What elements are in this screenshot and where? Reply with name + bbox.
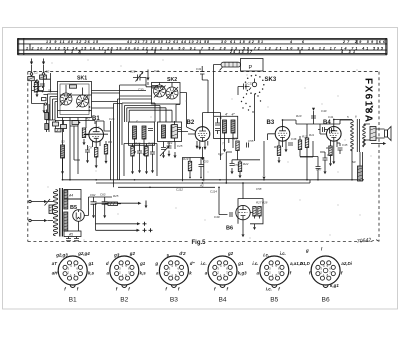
resistor R3 bbox=[95, 148, 98, 158]
trimmer C23 bbox=[176, 128, 181, 130]
wire detector mid bbox=[232, 116, 260, 163]
svg-text:f: f bbox=[227, 287, 229, 292]
svg-text:C41: C41 bbox=[328, 115, 334, 119]
svg-text:g1: g1 bbox=[139, 261, 146, 266]
wire R11 R12 bbox=[300, 136, 318, 180]
T1 secondary coil bbox=[231, 120, 235, 133]
svg-text:C47: C47 bbox=[316, 168, 322, 172]
wire left column bbox=[62, 158, 64, 168]
svg-text:SK3: SK3 bbox=[265, 77, 277, 83]
socket B2 pin labels bbox=[106, 251, 146, 291]
table row 1 numbers bbox=[26, 40, 386, 54]
svg-text:4: 4 bbox=[70, 264, 72, 268]
SK2 wafer 2 bbox=[166, 87, 178, 99]
ground S5 bbox=[143, 150, 146, 156]
junction AF box bbox=[189, 177, 191, 179]
svg-text:7: 7 bbox=[222, 142, 224, 146]
svg-text:C21: C21 bbox=[154, 69, 160, 73]
capacitor C49 bbox=[230, 212, 232, 217]
resistor R6 bbox=[172, 125, 178, 139]
junction SK1 outputs bbox=[69, 179, 71, 181]
resistor R4 bbox=[104, 145, 107, 155]
transformer core bbox=[60, 188, 63, 237]
wire T2 bbox=[352, 120, 370, 180]
svg-text:B5: B5 bbox=[270, 297, 278, 304]
wire R14 down bbox=[331, 143, 341, 160]
ground aerial bbox=[43, 107, 46, 113]
ground T1 bbox=[223, 146, 226, 152]
wire AVC rail bbox=[96, 180, 310, 183]
ground antenna bbox=[36, 91, 39, 97]
svg-text:B4: B4 bbox=[218, 297, 226, 304]
capacitor C50 bbox=[137, 151, 142, 153]
svg-text:R17: R17 bbox=[148, 142, 154, 146]
SK1 contact dots bbox=[89, 106, 91, 108]
ground R4 bbox=[105, 158, 108, 164]
svg-text:1: 1 bbox=[70, 273, 72, 277]
rectifier tube B5 bbox=[73, 210, 85, 222]
socket diagram B4 bbox=[208, 256, 237, 288]
capacitor C7 bbox=[72, 121, 80, 125]
svg-text:C31: C31 bbox=[196, 67, 202, 71]
wire HT rail bbox=[63, 179, 365, 181]
vertical risers right of B1 bbox=[111, 104, 123, 188]
wire SK1 bottom cluster bbox=[44, 104, 64, 132]
tube B3 bbox=[275, 127, 290, 142]
ground R22 bbox=[239, 172, 242, 178]
ground C50 bbox=[138, 167, 141, 173]
ground C51 bbox=[151, 167, 154, 173]
svg-text:R16: R16 bbox=[135, 142, 141, 146]
svg-text:R25: R25 bbox=[113, 194, 119, 198]
power transformer primary bbox=[53, 190, 57, 236]
arrow B2 pin3 bbox=[204, 147, 207, 150]
HT secondary box A4 bbox=[64, 190, 81, 200]
ground padder 2 bbox=[168, 151, 171, 157]
wire T1 plate feed bbox=[218, 113, 221, 160]
svg-text:a2,Di: a2,Di bbox=[341, 261, 352, 266]
wire to band switch bbox=[32, 95, 48, 108]
svg-text:5: 5 bbox=[347, 115, 349, 119]
wire heater rail bbox=[118, 186, 215, 188]
schematic dashed enclosure border bbox=[28, 72, 379, 242]
svg-text:70642: 70642 bbox=[357, 237, 372, 245]
svg-text:SK2: SK2 bbox=[167, 77, 177, 83]
coil box 1 bbox=[129, 122, 155, 145]
svg-text:g2: g2 bbox=[129, 251, 136, 256]
svg-text:f: f bbox=[77, 287, 79, 292]
wire coil box outputs bbox=[135, 139, 176, 150]
svg-text:R11: R11 bbox=[309, 133, 314, 137]
resistor R9 bbox=[277, 146, 280, 156]
capacitor C61 bbox=[74, 237, 79, 241]
wire harness box outer bbox=[118, 96, 181, 180]
svg-text:g: g bbox=[154, 261, 158, 266]
coil S2b bbox=[45, 124, 49, 130]
svg-text:i.c.: i.c. bbox=[280, 251, 286, 256]
svg-text:C36: C36 bbox=[291, 137, 297, 141]
wire B6 right bbox=[243, 206, 260, 231]
socket B1 pin labels bbox=[52, 251, 95, 291]
switch SK3 wafer bbox=[245, 75, 265, 95]
svg-text:C44: C44 bbox=[327, 153, 333, 157]
SK2 blade 2 bbox=[167, 87, 179, 99]
ground B3 cathode bbox=[285, 146, 288, 152]
transformer secondary S1 bbox=[64, 190, 68, 209]
svg-text:P: P bbox=[249, 65, 253, 71]
svg-text:d′2: d′2 bbox=[179, 251, 186, 256]
mains terminal L bbox=[29, 200, 53, 203]
IF transformer T1 box bbox=[214, 116, 238, 138]
ground C62 bbox=[92, 212, 95, 218]
svg-text:41 21 73 18 35 12 61 44 10 21: 41 21 73 18 35 12 61 44 10 21 58 bbox=[126, 40, 209, 44]
svg-text:4 1 7: 4 1 7 bbox=[63, 50, 81, 54]
wire antenna network bbox=[32, 75, 44, 103]
wire speaker bbox=[376, 129, 385, 138]
resistor R14 bbox=[329, 146, 332, 156]
svg-text:f: f bbox=[214, 287, 216, 292]
resistor R28 bbox=[258, 207, 261, 217]
arrow volume bbox=[263, 177, 266, 180]
wire volume feed bbox=[263, 141, 265, 176]
ground R27 bbox=[253, 224, 256, 230]
svg-text:C33: C33 bbox=[248, 82, 254, 86]
svg-text:C30: C30 bbox=[138, 88, 144, 92]
capacitor C30 bbox=[146, 86, 163, 89]
svg-text:k,g1: k,g1 bbox=[330, 283, 339, 288]
svg-text:g2: g2 bbox=[227, 251, 234, 256]
capacitor C53 bbox=[199, 165, 204, 167]
svg-text:g3: g3 bbox=[113, 253, 120, 258]
svg-text:f: f bbox=[64, 287, 66, 292]
ground R16 bbox=[131, 168, 134, 174]
ground padder 3 bbox=[174, 152, 177, 158]
capacitor C24 padder bbox=[161, 148, 166, 150]
capacitor C6 bbox=[53, 122, 59, 126]
svg-text:B4: B4 bbox=[323, 120, 331, 126]
input coupling cluster bbox=[33, 73, 58, 92]
wire SK1 outputs bbox=[63, 118, 87, 180]
wire SK1 internal bbox=[60, 85, 92, 95]
svg-text:f: f bbox=[278, 287, 280, 292]
coil S4 bbox=[133, 126, 137, 139]
svg-text:1: 1 bbox=[220, 273, 222, 277]
resistor R27 bbox=[253, 207, 256, 217]
T2 core bbox=[357, 119, 359, 152]
pickup P cartridge bbox=[220, 62, 241, 70]
svg-text:B3: B3 bbox=[267, 120, 275, 126]
tube B6 bbox=[236, 205, 250, 219]
svg-text:a: a bbox=[156, 271, 159, 276]
svg-text:g: g bbox=[305, 248, 309, 253]
aerial contact box bbox=[42, 98, 47, 101]
svg-text:g1: g1 bbox=[237, 261, 244, 266]
svg-text:4'': 4'' bbox=[232, 112, 236, 116]
wire output drop bbox=[95, 203, 97, 230]
svg-text:R14: R14 bbox=[326, 146, 332, 150]
capacitor C31 bbox=[200, 66, 208, 113]
scan speckles bbox=[48, 60, 372, 241]
svg-text:SK1: SK1 bbox=[77, 76, 87, 82]
svg-text:B1: B1 bbox=[69, 297, 77, 304]
wire B+ feed bbox=[84, 197, 112, 216]
T2 secondary bbox=[363, 124, 366, 147]
svg-text:f: f bbox=[165, 287, 167, 292]
mains terminal N bbox=[29, 219, 53, 222]
coil S5 bbox=[142, 126, 146, 139]
trimmer C20 bbox=[133, 71, 146, 81]
svg-text:d: d bbox=[106, 261, 109, 266]
svg-text:B3: B3 bbox=[170, 297, 178, 304]
capacitor C40 bbox=[323, 127, 325, 132]
resistor R16 bbox=[131, 147, 134, 157]
resistor R5 bbox=[55, 129, 61, 132]
dial lamp feed arrow bbox=[371, 142, 386, 145]
svg-text:C2: C2 bbox=[46, 70, 50, 74]
electrolytic C62 bbox=[91, 197, 97, 212]
svg-text:R21: R21 bbox=[232, 137, 238, 141]
SK1 blade 2 bbox=[77, 96, 89, 108]
wire SK2 to B2 grid bbox=[180, 93, 195, 132]
resistor R22 bbox=[238, 162, 241, 172]
svg-text:B2: B2 bbox=[187, 120, 195, 126]
fuse box bbox=[49, 205, 53, 214]
decoupling box bbox=[124, 144, 157, 177]
output transformer T2 primary bbox=[351, 121, 354, 151]
capacitor C47 bbox=[316, 167, 321, 169]
capacitor C8 bbox=[85, 150, 90, 152]
wire R6 bbox=[175, 121, 189, 142]
svg-text:g2,g3: g2,g3 bbox=[55, 253, 68, 258]
ground R14 bbox=[329, 160, 332, 166]
svg-text:k,s: k,s bbox=[140, 271, 147, 276]
svg-text:l: l bbox=[321, 247, 323, 252]
svg-text:a: a bbox=[205, 271, 208, 276]
wire right column bbox=[300, 141, 313, 157]
wire R4 bbox=[96, 141, 106, 162]
svg-text:i.c.: i.c. bbox=[266, 287, 272, 292]
svg-text:2: 2 bbox=[135, 119, 138, 123]
capacitor C55 bbox=[247, 143, 249, 148]
SK3 scatter contacts bbox=[241, 93, 261, 112]
svg-text:Fig.5: Fig.5 bbox=[192, 240, 207, 246]
svg-text:f: f bbox=[178, 287, 180, 292]
antenna terminal A1 bbox=[30, 59, 33, 76]
wire B6 feed bbox=[219, 183, 243, 215]
T1 trimmer 1 bbox=[215, 123, 220, 125]
svg-text:R22: R22 bbox=[243, 162, 249, 166]
resistor R12 bbox=[298, 140, 301, 150]
capacitor C43 bbox=[311, 116, 316, 118]
AF coupling box bbox=[183, 158, 204, 182]
antenna terminal A2 bbox=[42, 59, 45, 76]
resistor R25 bbox=[105, 202, 121, 205]
svg-text:C57: C57 bbox=[218, 152, 224, 156]
svg-text:A5: A5 bbox=[68, 233, 73, 237]
socket diagram B5 bbox=[260, 256, 289, 288]
junction T1 bbox=[220, 117, 222, 119]
wire B3 leads bbox=[268, 120, 297, 147]
component value labels bbox=[34, 67, 357, 205]
svg-text:A2: A2 bbox=[199, 184, 204, 188]
svg-text:C112: C112 bbox=[176, 188, 183, 192]
svg-text:C8: C8 bbox=[88, 146, 92, 150]
trimmer C22 bbox=[148, 129, 153, 131]
adjust arrow C21 bbox=[147, 70, 150, 81]
SK1 wafer 1 bbox=[60, 93, 72, 105]
svg-text:R4: R4 bbox=[108, 140, 112, 144]
B6 outline box bbox=[238, 199, 263, 224]
capacitor C36 bbox=[288, 143, 293, 145]
svg-text:R9: R9 bbox=[274, 145, 278, 149]
T1 primary coil bbox=[223, 120, 227, 133]
wire T1 bottom bbox=[225, 133, 234, 148]
wire b6 column bbox=[226, 152, 232, 183]
wire decoupling bbox=[133, 144, 153, 169]
svg-text:S3: S3 bbox=[61, 140, 65, 144]
svg-text:C16: C16 bbox=[109, 117, 115, 121]
coil S2a bbox=[45, 113, 49, 120]
svg-text:f: f bbox=[128, 287, 130, 292]
capacitor C4 in SK1 bbox=[70, 85, 77, 88]
svg-text:C24: C24 bbox=[167, 141, 173, 145]
field coil bbox=[358, 166, 363, 181]
socket B4 pin labels bbox=[201, 251, 248, 291]
capacitor C5 bbox=[61, 125, 67, 129]
ground C8 bbox=[86, 157, 89, 163]
svg-text:4: 4 bbox=[171, 264, 173, 268]
wire B2 cathode bbox=[202, 147, 204, 154]
svg-text:i.c.: i.c. bbox=[201, 261, 207, 266]
coil S7 bbox=[171, 125, 175, 138]
svg-text:C55: C55 bbox=[248, 139, 254, 143]
svg-text:S1: S1 bbox=[48, 89, 52, 93]
svg-text:S9: S9 bbox=[352, 160, 356, 164]
svg-text:a: a bbox=[107, 271, 110, 276]
svg-text:a1,D: a1,D bbox=[301, 261, 311, 266]
svg-text:1: 1 bbox=[323, 273, 325, 277]
svg-text:k,g3: k,g3 bbox=[238, 271, 247, 276]
svg-text:1: 1 bbox=[171, 273, 173, 277]
socket diagram B3 bbox=[159, 256, 188, 288]
wire B1 grid through-line bbox=[84, 133, 108, 135]
socket B5 pin labels bbox=[252, 251, 303, 291]
svg-text:C20: C20 bbox=[130, 70, 136, 74]
ground C44 bbox=[324, 168, 327, 174]
SK1 blade 1 bbox=[61, 93, 72, 106]
arrow AVC bbox=[312, 108, 315, 111]
SK2 wafer 1 bbox=[154, 85, 166, 97]
svg-text:i.c.: i.c. bbox=[252, 261, 258, 266]
wire AVC rail bbox=[296, 111, 352, 138]
svg-text:4: 4 bbox=[122, 264, 124, 268]
svg-text:R28: R28 bbox=[262, 201, 268, 205]
ground C56 bbox=[231, 168, 234, 174]
svg-text:6: 6 bbox=[355, 115, 357, 119]
socket diagram B1 bbox=[58, 256, 87, 288]
wire harness around SK1 bbox=[48, 91, 147, 121]
svg-text:4': 4' bbox=[225, 112, 228, 116]
arrow B2 pin1 bbox=[196, 146, 199, 149]
resistor R19 bbox=[188, 161, 191, 171]
capacitor C44 bbox=[323, 158, 328, 160]
capacitor C1 bbox=[28, 77, 35, 81]
ground R9 bbox=[278, 157, 281, 163]
svg-text:d′′: d′′ bbox=[190, 261, 196, 266]
ground S3 bbox=[61, 168, 64, 174]
socket diagram B6 bbox=[311, 256, 340, 288]
component value table strip bbox=[18, 38, 388, 54]
output terminal wire 1 bbox=[96, 201, 148, 209]
svg-text:g2,g4: g2,g4 bbox=[77, 251, 90, 256]
capacitor C60 bbox=[66, 237, 71, 241]
output terminal wire 3 bbox=[96, 228, 153, 232]
svg-text:24 13 37: 24 13 37 bbox=[229, 50, 253, 54]
socket diagram B2 bbox=[110, 256, 139, 288]
ground B2 bbox=[201, 154, 204, 160]
wire AF box bbox=[190, 158, 201, 178]
coil S6 bbox=[162, 125, 166, 138]
ground R17 bbox=[145, 168, 148, 174]
svg-text:C114: C114 bbox=[210, 190, 217, 194]
wire B5 bbox=[68, 199, 81, 231]
SK2 blade 1 bbox=[154, 86, 166, 98]
T1 trimmer 2 bbox=[215, 129, 220, 131]
wire SK2 top bbox=[152, 83, 173, 88]
svg-text:C1: C1 bbox=[34, 71, 38, 75]
svg-text:C49: C49 bbox=[214, 215, 220, 219]
mains switch blade bbox=[45, 199, 51, 206]
SK1 wafer 2 bbox=[77, 95, 89, 107]
resistor R2 bbox=[82, 128, 85, 138]
ground S4 bbox=[133, 148, 136, 154]
electrolytic C63 bbox=[102, 197, 108, 212]
svg-text:27 29 59 66: 27 29 59 66 bbox=[342, 40, 386, 44]
svg-text:C58: C58 bbox=[256, 187, 262, 191]
speaker voice coil bbox=[370, 127, 376, 141]
wire field coil bbox=[360, 152, 363, 181]
svg-text:f: f bbox=[341, 271, 343, 276]
svg-text:f: f bbox=[116, 287, 118, 292]
band switch SK2 box bbox=[152, 83, 181, 105]
capacitor C41 bbox=[330, 128, 332, 133]
coil box 2 bbox=[158, 122, 182, 142]
wire C44 bbox=[320, 152, 325, 168]
svg-text:1 2 10 73 12 51 14 15 16 17 28: 1 2 10 73 12 51 14 15 16 17 28 19 20 61 … bbox=[26, 46, 162, 50]
svg-text:C56: C56 bbox=[234, 163, 240, 167]
svg-text:aT: aT bbox=[52, 261, 57, 266]
tube B2 bbox=[195, 127, 210, 142]
ground B6 bbox=[242, 231, 245, 237]
trimmer arrow padder bbox=[160, 145, 170, 156]
svg-text:f: f bbox=[290, 271, 292, 276]
wire C40 bbox=[318, 130, 335, 131]
ground B1 cathode bbox=[95, 162, 98, 168]
svg-text:i.c.: i.c. bbox=[263, 253, 269, 258]
tube B4 bbox=[327, 127, 342, 142]
svg-text:g1: g1 bbox=[88, 261, 95, 266]
wire C47 down bbox=[317, 169, 319, 180]
svg-text:1: 1 bbox=[122, 273, 124, 277]
contact a bbox=[44, 103, 46, 105]
svg-text:4: 4 bbox=[323, 264, 325, 268]
wire B2 leads bbox=[188, 113, 221, 147]
ground C63 bbox=[103, 212, 106, 218]
SK1 lower nested lines bbox=[55, 111, 95, 125]
ground padder 1 bbox=[162, 152, 165, 158]
svg-text:59 72 13 21 10 92 16 12 17 14: 59 72 13 21 10 92 16 12 17 14 71 41 595 bbox=[243, 46, 384, 50]
svg-text:C62: C62 bbox=[90, 193, 96, 197]
